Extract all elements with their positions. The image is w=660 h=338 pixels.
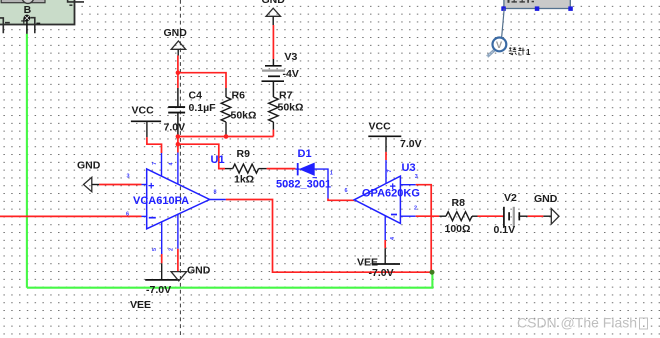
wire from terminal B down	[26, 21, 28, 34]
svg-text:50kΩ: 50kΩ	[278, 102, 304, 114]
U1 pin 6 (- input)	[126, 212, 147, 218]
svg-text:7: 7	[152, 162, 158, 165]
svg-text:+: +	[148, 181, 154, 193]
watermark CSDN @The Flash	[517, 315, 648, 332]
svg-text:R7: R7	[279, 90, 293, 102]
node junction	[176, 70, 181, 75]
op-amp U3 OPA620KG (mirrored)	[354, 162, 420, 223]
power VCC (above U3)	[368, 121, 421, 152]
svg-text:GND: GND	[164, 27, 188, 39]
svg-text:2: 2	[414, 206, 417, 212]
selection handle	[568, 6, 573, 10]
wire blue D1 to U3 output node	[314, 169, 328, 198]
wire red VCC to U3	[385, 152, 387, 160]
resistor R7	[269, 90, 304, 130]
op-amp U1 VCA610PA	[133, 154, 225, 229]
svg-text:GND: GND	[534, 193, 558, 205]
U1 pin 7 (top-left)	[152, 153, 162, 176]
capacitor C4	[168, 88, 216, 135]
node junction	[176, 142, 181, 147]
svg-text:U1: U1	[211, 154, 225, 166]
node junction	[176, 134, 181, 139]
wire red U3 VEE pin	[384, 240, 386, 248]
svg-text:GND: GND	[187, 265, 211, 277]
wire red U3 pin3 to feedback node	[416, 185, 432, 273]
U3 pin 3 (+ input)	[400, 174, 417, 185]
svg-text:7: 7	[387, 169, 393, 172]
selection handle	[501, 6, 506, 10]
wire red D1 down to U3 output	[328, 199, 354, 201]
svg-text:CSDN @The Flash: CSDN @The Flash	[517, 315, 637, 331]
instrument terminal B	[21, 4, 40, 28]
svg-text:3: 3	[127, 174, 130, 180]
node junction	[224, 134, 229, 139]
wire instrument terminal stub left	[0, 18, 3, 33]
svg-text:U3: U3	[402, 162, 416, 174]
wire red GND to C4/R6 node	[177, 56, 179, 89]
wire red left edge to U1 - input	[0, 215, 142, 217]
svg-text:1: 1	[330, 171, 333, 177]
svg-text:7.0V: 7.0V	[400, 138, 422, 150]
resistor R6	[221, 88, 256, 137]
svg-text:1: 1	[526, 48, 531, 57]
U3 pin 2 (- input)	[400, 206, 417, 217]
svg-text:5: 5	[152, 248, 158, 251]
svg-text:VCC: VCC	[369, 121, 392, 133]
wire green vertical from instrument	[26, 34, 28, 288]
svg-text:-7.0V: -7.0V	[146, 284, 171, 296]
svg-text:1kΩ: 1kΩ	[234, 173, 254, 185]
resistor R8	[439, 197, 477, 235]
svg-text:VCC: VCC	[132, 105, 155, 117]
svg-text:V: V	[496, 40, 503, 51]
svg-text:VEE: VEE	[130, 299, 151, 311]
power VEE (below U1)	[130, 263, 179, 311]
dashed page boundary line	[179, 0, 181, 338]
svg-text:0.1V: 0.1V	[494, 224, 516, 236]
svg-text:D1: D1	[298, 148, 312, 160]
svg-text:6: 6	[345, 188, 348, 194]
ground GND (top, above V3, clipped)	[262, 0, 286, 25]
wire red C4 bottom to U1 pin	[177, 135, 179, 153]
svg-text:V3: V3	[285, 51, 298, 63]
svg-text:VCA610PA: VCA610PA	[133, 195, 189, 207]
svg-text:7.0V: 7.0V	[164, 121, 186, 133]
probe 探针1 (magnifier)	[487, 38, 506, 57]
wire red VCC to U1 pin 7	[147, 137, 162, 153]
selection handle	[535, 6, 540, 10]
U1 pin 5 (bottom-left)	[152, 222, 162, 255]
svg-text:GND: GND	[262, 0, 286, 6]
wire red R7 bottom corner	[272, 130, 274, 137]
svg-text:OPA620KG: OPA620KG	[362, 188, 420, 200]
wire red U3 pin2 to R8	[416, 215, 440, 217]
power VEE (below U3)	[357, 248, 400, 279]
battery V2	[494, 192, 528, 236]
ground GND (below U1, down arrow)	[171, 265, 211, 281]
wire red V2 to GND	[528, 215, 544, 217]
wire red U1 VEE pin	[161, 254, 163, 263]
wire red to R6 top	[178, 73, 226, 88]
svg-text:+: +	[21, 16, 27, 28]
svg-text:-4V: -4V	[283, 68, 299, 80]
svg-text:V2: V2	[504, 192, 517, 204]
svg-text:50kΩ: 50kΩ	[231, 110, 257, 122]
U3 pin 4 (bottom)	[385, 216, 396, 240]
wire red R9 to D1	[267, 168, 296, 170]
instrument (partial, top-left)	[0, 0, 75, 25]
svg-text:B: B	[24, 4, 32, 16]
wire green horizontal bottom	[27, 272, 433, 288]
svg-text:GND: GND	[77, 160, 101, 172]
svg-text:100Ω: 100Ω	[445, 223, 471, 235]
wire red node rail C4/R6/R7	[178, 136, 274, 138]
svg-text:R8: R8	[452, 197, 466, 209]
U3 pin 7 (top)	[386, 160, 393, 183]
svg-text:0.1µF: 0.1µF	[189, 102, 217, 114]
svg-text:8: 8	[214, 190, 217, 196]
svg-text:3: 3	[415, 174, 418, 180]
wire red U1 output feedback rail	[226, 200, 431, 273]
svg-text:R9: R9	[237, 148, 251, 160]
probe label 探针1	[509, 47, 525, 55]
wire red GND to V3	[272, 25, 274, 59]
svg-text:-7.0V: -7.0V	[369, 267, 394, 279]
ground GND (right arrow)	[534, 193, 559, 224]
wire red to R9	[178, 144, 225, 168]
battery V3	[262, 51, 299, 97]
U1 pin 3 (+ input)	[127, 174, 147, 185]
svg-text:2: 2	[169, 248, 175, 251]
power VCC (left)	[131, 105, 185, 138]
ground GND (above C4)	[164, 27, 188, 56]
wire red R8 to V2	[478, 215, 504, 217]
wire instrument terminal stub right	[30, 18, 35, 34]
node junction (green/red)	[430, 270, 435, 275]
svg-text:R6: R6	[232, 90, 246, 102]
wire red GND to U1 + input	[99, 184, 142, 186]
resistor R9	[225, 148, 267, 186]
U1 pin 2 (bottom-right)	[169, 214, 178, 251]
ground GND (left of U1 + input)	[77, 160, 101, 192]
U1 pin 4 (top-right)	[169, 153, 178, 185]
probe readout box (selected, clipped at top)	[504, 0, 570, 9]
svg-text:C4: C4	[189, 90, 203, 102]
svg-text:5082_3001: 5082_3001	[276, 178, 331, 190]
wire instrument top-right stub	[68, 0, 84, 2]
probe leader line	[502, 9, 505, 38]
diode D1 5082_3001	[276, 148, 331, 191]
wire red U1 GND pin	[177, 249, 179, 272]
U1 pin 8 (output)	[210, 190, 226, 200]
